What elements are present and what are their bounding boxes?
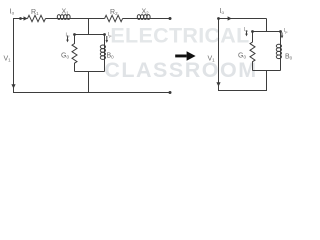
svg-text:X2: X2 — [142, 9, 150, 16]
svg-text:V1: V1 — [208, 56, 216, 63]
svg-text:ELECTRICAL: ELECTRICAL — [110, 24, 249, 48]
svg-text:X1: X1 — [62, 9, 70, 16]
svg-text:G0: G0 — [61, 53, 69, 60]
svg-text:G0: G0 — [238, 53, 246, 60]
svg-text:Iw: Iw — [66, 33, 70, 39]
svg-text:Io: Io — [220, 8, 225, 15]
svg-text:Iµ: Iµ — [284, 28, 287, 34]
svg-text:CLASSROOM: CLASSROOM — [104, 58, 257, 82]
svg-text:Iµ: Iµ — [108, 32, 111, 38]
svg-text:V1: V1 — [4, 56, 12, 63]
svg-text:Iw: Iw — [244, 27, 248, 33]
svg-text:B0: B0 — [285, 54, 293, 61]
svg-text:R1: R1 — [31, 9, 39, 16]
svg-text:R2: R2 — [110, 9, 118, 16]
svg-text:B0: B0 — [107, 53, 115, 60]
